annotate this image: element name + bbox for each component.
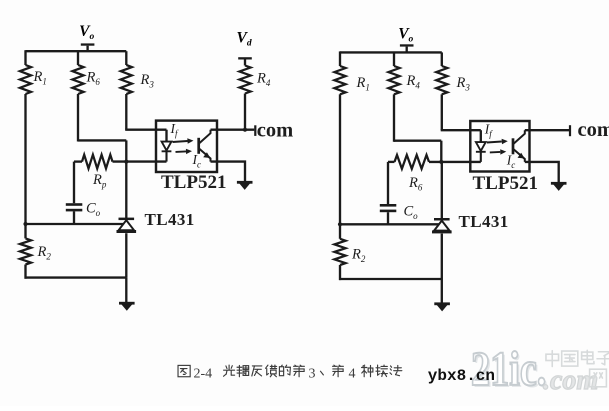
svg-text:TLP521: TLP521 — [473, 173, 538, 194]
wire jog vertical down to LED cathode node — [125, 140, 127, 161]
wire LED anode bend inside U3 (right) — [480, 130, 482, 142]
wire left rail upper stub to R1 (right) — [339, 51, 341, 66]
svg-text:com: com — [578, 119, 609, 141]
wire TL431 anode to bottom rail (right) — [441, 234, 443, 279]
wire R3 to LED anode pin (right) — [441, 129, 481, 131]
TL431 U2 (left shunt regulator) — [125, 162, 127, 218]
wire R4 branch stub from rail (right) — [393, 52, 395, 66]
wire Co branch vertical from Rp node — [73, 162, 75, 204]
wire collector to com terminal (right) — [525, 129, 570, 131]
svg-text:TL431: TL431 — [459, 212, 509, 231]
resistor R3 (left) — [121, 65, 132, 94]
wire TL431 reference horizontal (right) — [340, 223, 439, 225]
node Vo supply terminal (right circuit) — [398, 26, 413, 53]
wire left rail R1 to ref node (right) — [339, 94, 341, 224]
wire Rp to optocoupler LED cathode pin — [113, 160, 167, 162]
wire R4 bottom vertical (right) — [393, 94, 395, 142]
wire top rail (right circuit) — [340, 51, 442, 53]
junction LED cathode / TL431 cathode node (right) — [439, 160, 443, 164]
wire R4 to com node — [244, 94, 246, 131]
wire LED anode bend inside U1 (left) — [165, 130, 167, 142]
svg-text:ybx8.cn: ybx8.cn — [428, 367, 495, 385]
wire R6 branch stub from rail — [77, 51, 79, 65]
watermark chinese characters row — [546, 351, 559, 367]
wire Co to TL431 ref wire — [73, 211, 75, 224]
wire jog R6 to cathode column — [78, 139, 126, 141]
wire R3 branch stub from rail — [125, 51, 127, 65]
wire emitter to ground (left) — [211, 162, 246, 182]
optocoupler U3 TLP521 package box (right) — [470, 121, 529, 172]
TL431 U4 (right shunt regulator) — [441, 162, 443, 218]
resistor R1 (right) — [334, 66, 345, 94]
node com terminal tick (right) — [569, 125, 571, 136]
wire jog R4 to cathode column (right) — [394, 140, 441, 142]
wire TL431 reference horizontal (left) — [26, 223, 124, 225]
resistor R1 (left) — [20, 65, 31, 94]
wire R3 to optocoupler LED anode pin — [125, 129, 166, 131]
wire left rail R2 to bottom rail (right) — [339, 265, 341, 280]
label If current arrow (left) — [173, 138, 194, 154]
junction LED cathode / TL431 cathode node (left) — [124, 160, 128, 164]
resistor R2 (right) — [334, 239, 345, 265]
LED diode inside U1 (left) — [162, 142, 172, 162]
wire left rail R2 to bottom rail — [24, 265, 26, 279]
wire R6 bottom vertical — [77, 94, 79, 142]
wire emitter to ground (right) — [525, 162, 559, 182]
svg-text:TL431: TL431 — [145, 210, 195, 229]
wire left rail ref node to R2 — [24, 224, 26, 238]
wire R6 to LED cathode pin (right) — [429, 161, 481, 163]
svg-text:2-4: 2-4 — [194, 366, 213, 381]
wire left rail R1 to ref node — [24, 94, 26, 224]
resistor R2 (left) — [20, 238, 31, 264]
resistor R4 (left pull-up) — [239, 66, 250, 94]
ground (right circuit bottom) — [434, 302, 450, 311]
watermark 21ic logo — [471, 342, 548, 399]
wire bottom rail (left circuit) — [25, 276, 127, 278]
ground (right emitter) — [551, 182, 567, 191]
resistor R4 (right) — [388, 66, 399, 94]
wire Co branch vertical (right) — [387, 162, 389, 204]
wire bottom rail (right circuit) — [339, 278, 442, 280]
node Vo supply terminal (left circuit) — [79, 23, 94, 51]
wire jog vertical to LED cathode node (right) — [440, 141, 442, 162]
resistor R6 (right compensation) — [395, 155, 430, 169]
phototransistor inside U3 (right) — [513, 130, 525, 162]
svg-text:4: 4 — [349, 366, 356, 381]
ground (left circuit bottom) — [119, 302, 135, 311]
resistor R3 (right) — [436, 66, 447, 94]
svg-text:TLP521: TLP521 — [161, 172, 226, 193]
wire R3 bottom vertical — [125, 94, 127, 130]
junction ref wire to left rail (right) — [338, 222, 342, 226]
junction R4 com node (left) — [243, 128, 247, 132]
wire LED cathode / R6 node horizontal (right) — [388, 161, 395, 163]
optocoupler U1 TLP521 package box (left) — [156, 121, 217, 172]
capacitor Co (left) — [66, 203, 83, 211]
phototransistor inside U1 (left) — [199, 130, 211, 162]
wire left rail ref to R2 (right) — [339, 224, 341, 239]
wire R3 bottom vertical (right) — [441, 94, 443, 130]
resistor Rp (left compensation) — [82, 155, 113, 169]
junction ref wire to left rail (left) — [23, 222, 27, 226]
wire LED cathode / Rp node horizontal — [74, 160, 82, 162]
svg-text:3: 3 — [309, 366, 316, 381]
wire left rail upper stub to R1 — [24, 50, 26, 65]
wire Co to ref wire (right) — [387, 212, 389, 224]
resistor R6 (left) — [72, 65, 83, 94]
capacitor Co (right) — [380, 204, 397, 212]
wire bottom rail to ground stub (right) — [441, 279, 443, 303]
wire collector to com terminal (left) — [211, 129, 255, 131]
node Vd supply terminal (left circuit) — [237, 30, 252, 66]
node com terminal tick (left) — [254, 125, 256, 136]
ground (left emitter) — [237, 181, 253, 190]
wire TL431 anode to bottom rail — [125, 233, 127, 277]
LED diode inside U3 (right) — [476, 142, 486, 162]
light arrows inside U3 (right) — [487, 139, 508, 155]
wire top rail (left circuit) — [26, 50, 127, 52]
wire R3 branch stub from rail (right) — [441, 52, 443, 66]
wire bottom rail to ground stub — [125, 278, 127, 302]
svg-text:com: com — [257, 119, 293, 141]
